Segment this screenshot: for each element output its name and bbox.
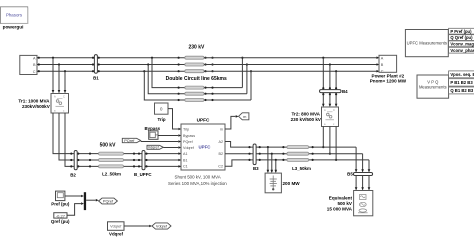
- wire Tr2 to 500kV phase A: [322, 127, 324, 149]
- svg-text:200 MW: 200 MW: [283, 181, 301, 186]
- line block L2cct phase B: [185, 92, 247, 95]
- label Tr1: [18, 98, 50, 109]
- svg-text:Trip: Trip: [157, 117, 165, 122]
- wire Bypass to UPFC: [158, 134, 181, 137]
- split wire circuit2 phase A: [151, 57, 185, 89]
- wire Tr2 to 500kV phase C: [335, 127, 337, 161]
- wire down to B5 phase B: [361, 154, 364, 173]
- svg-text:B1: B1: [93, 75, 99, 80]
- svg-text:L3_50km: L3_50km: [292, 166, 311, 171]
- wire B4 to Tr2 phase C: [335, 93, 338, 107]
- display P Pref (pu): [449, 28, 474, 34]
- svg-text:L2_50km: L2_50km: [102, 171, 121, 176]
- line block L2_50km phase A: [99, 152, 124, 155]
- wire A2 out: [225, 142, 356, 148]
- svg-text:C1: C1: [183, 165, 188, 169]
- junction dots at B3: [248, 146, 260, 161]
- wire C2 out: [225, 160, 369, 166]
- display Vpos seq B1 B2 B3: [449, 71, 474, 78]
- svg-text:Q Qref (pu): Q Qref (pu): [450, 35, 473, 40]
- label Equivalent: [327, 195, 353, 211]
- line block L3_50km phase C: [282, 158, 313, 161]
- wire rejoin phase A: [241, 57, 243, 88]
- source Vdqref: [108, 222, 125, 237]
- svg-text:Vconv_mag: Vconv_mag: [450, 41, 474, 46]
- label Tr2: [291, 111, 322, 121]
- bus B2: [70, 151, 77, 178]
- wire phase A to Power Plant 2: [204, 56, 379, 59]
- goto tag PQref: [99, 198, 118, 204]
- svg-text:Bypass: Bypass: [144, 126, 160, 131]
- svg-text:230 kV: 230 kV: [188, 45, 205, 51]
- wire drop to Tr1 phase A: [52, 57, 55, 94]
- wire PQref to UPFC: [141, 140, 182, 143]
- display Vconv_phase: [449, 47, 474, 53]
- svg-text:500 kV: 500 kV: [337, 201, 352, 206]
- wire m to goto tag: [225, 115, 239, 129]
- wire B4 to Tr2 phase A: [322, 93, 325, 107]
- svg-text:Pref (pu): Pref (pu): [51, 201, 70, 206]
- line block L3_50km phase A: [282, 146, 313, 149]
- wire Pref to mux: [65, 195, 84, 198]
- svg-text:m: m: [220, 127, 223, 131]
- svg-text:Vdqref: Vdqref: [110, 225, 122, 229]
- wire B2 to B_UPFC phase C: [70, 165, 181, 168]
- wire drop to Tr1 phase B: [58, 63, 61, 93]
- svg-text:UPFC: UPFC: [199, 144, 212, 149]
- svg-text:A1: A1: [183, 152, 188, 156]
- wire down to B5 phase C: [368, 160, 371, 173]
- svg-text:Tr2: 800 MVA: Tr2: 800 MVA: [291, 111, 320, 116]
- subsystem UPFC Measurements: [405, 30, 448, 57]
- svg-text:Vdqref: Vdqref: [183, 146, 195, 150]
- svg-text:Trip: Trip: [183, 127, 189, 131]
- wire drop to B4 phase C: [335, 70, 337, 89]
- svg-text:230kV/500kV: 230kV/500kV: [22, 104, 51, 109]
- svg-text:B1: B1: [183, 158, 188, 162]
- transformer Tr1: [51, 94, 69, 114]
- split wire circuit2 phase C: [143, 70, 185, 101]
- svg-text:B_UPFC: B_UPFC: [134, 172, 152, 177]
- wire load drop phase A: [267, 146, 270, 173]
- svg-text:Series 100 MVA,10% injection: Series 100 MVA,10% injection: [168, 181, 227, 186]
- line block L3_50km phase B: [282, 152, 313, 155]
- goto tag m: [239, 113, 249, 120]
- label Shunt Series: [168, 174, 227, 185]
- wire B5 to equivalent source phase B: [361, 176, 364, 191]
- wire Tr2 to 500kV phase B: [329, 127, 331, 155]
- svg-text:15 000 MVA: 15 000 MVA: [327, 207, 353, 212]
- bus B1: [93, 55, 99, 81]
- wire Vdqref to UPFC: [163, 146, 181, 149]
- svg-text:Vdqref: Vdqref: [148, 146, 160, 150]
- display Vconv_mag: [449, 41, 474, 47]
- line block L1 circuit1 phase A: [185, 56, 214, 59]
- svg-text:500 kV: 500 kV: [100, 142, 117, 148]
- svg-text:PQref: PQref: [103, 199, 114, 204]
- wire B2 to B_UPFC phase B: [70, 159, 181, 162]
- subsystem UPFC: [181, 118, 225, 170]
- wire drop to B4 phase B: [329, 63, 331, 89]
- svg-text:Double Circuit line 65kms: Double Circuit line 65kms: [166, 76, 227, 82]
- wire drop to Tr1 phase C: [64, 70, 67, 93]
- load 200 MW: [265, 173, 300, 193]
- wire Vdqref to goto: [124, 225, 152, 228]
- line block L2_50km phase B: [99, 159, 124, 162]
- wire phase B source1 to line block: [37, 63, 185, 65]
- bus B5: [347, 172, 372, 177]
- svg-text:UPFC Measurements: UPFC Measurements: [407, 41, 447, 46]
- constant Qref (pu): [51, 213, 70, 224]
- svg-text:C2: C2: [218, 165, 223, 169]
- svg-text:Phasors: Phasors: [6, 13, 23, 18]
- wire Trip to UPFC: [168, 109, 181, 131]
- breaker Bypass: [144, 126, 160, 139]
- goto tag Vdqref: [152, 223, 171, 229]
- svg-text:Q B1 B2 B3 (M: Q B1 B2 B3 (M: [450, 88, 474, 93]
- svg-text:Vpos. seq. B1 B2: Vpos. seq. B1 B2: [450, 72, 474, 77]
- wire Tr1 to B2 phase A: [53, 113, 71, 154]
- svg-text:B2: B2: [70, 172, 76, 177]
- svg-text:A2: A2: [218, 140, 223, 144]
- constant Trip: [155, 103, 169, 122]
- svg-text:A: A: [54, 95, 56, 99]
- powergui block: [1, 7, 28, 30]
- svg-text:Shunt 500 kV, 100 MVA: Shunt 500 kV, 100 MVA: [175, 174, 221, 179]
- transformer Tr2: [322, 107, 339, 127]
- svg-text:Measurements: Measurements: [419, 85, 447, 90]
- source Power Plant #2: [370, 55, 407, 83]
- wire down to B5 phase A: [355, 147, 358, 172]
- wire phase C source1 to line block: [37, 70, 185, 72]
- bus B4: [320, 89, 349, 94]
- wire Qref to mux: [67, 202, 84, 215]
- svg-text:P B1 B2 B3 (M: P B1 B2 B3 (M: [450, 80, 474, 85]
- svg-text:Vdqref: Vdqref: [109, 232, 123, 237]
- svg-text:Tr1: 1000 MVA: Tr1: 1000 MVA: [18, 98, 50, 103]
- svg-text:Vconv_phase: Vconv_phase: [450, 48, 474, 53]
- svg-text:UPFC: UPFC: [197, 118, 210, 123]
- svg-text:powergui: powergui: [3, 25, 24, 30]
- mux: [84, 192, 86, 210]
- display Q Qref (pu): [449, 35, 474, 41]
- svg-text:C: C: [33, 70, 36, 74]
- source Power Plant #1: [20, 55, 37, 74]
- wire B2 out: [225, 153, 363, 155]
- subsystem VPQ Measurements: [417, 75, 449, 98]
- line block L1 circuit1 phase B: [185, 63, 214, 66]
- from tag PQref: [122, 138, 140, 143]
- svg-text:B4: B4: [342, 89, 348, 94]
- svg-text:B3: B3: [253, 166, 259, 171]
- display P B1 B2 B3: [449, 79, 474, 86]
- wire rejoin phase B: [246, 63, 248, 93]
- svg-text:C: C: [333, 108, 335, 112]
- svg-text:m: m: [243, 114, 246, 119]
- svg-text:B5: B5: [347, 172, 353, 177]
- split wire circuit2 phase B: [147, 63, 185, 94]
- svg-text:Equivalent: Equivalent: [329, 195, 353, 200]
- wire Tr1 to B2 phase B: [59, 113, 71, 160]
- svg-text:PQref: PQref: [183, 140, 194, 144]
- svg-text:Bypass: Bypass: [183, 134, 195, 138]
- wire phase A source1 to line block: [37, 57, 185, 59]
- wire mux to PQref goto: [86, 199, 99, 202]
- svg-text:-0.27: -0.27: [56, 213, 66, 218]
- svg-text:A: A: [324, 108, 326, 112]
- svg-text:230 kV/500 kV: 230 kV/500 kV: [291, 117, 322, 122]
- wire rejoin phase C: [250, 70, 252, 100]
- wire phase B to Power Plant 2: [204, 63, 379, 66]
- svg-text:C: C: [63, 95, 65, 99]
- line block L2cct phase C: [185, 99, 251, 102]
- line block L1 circuit1 phase C: [185, 70, 214, 73]
- line block L2cct phase A: [185, 86, 243, 89]
- wire phase C to Power Plant 2: [204, 70, 379, 73]
- bus B_UPFC: [134, 151, 152, 177]
- wire B2 to B_UPFC phase A: [70, 152, 181, 155]
- wire B5 to equivalent source phase A: [355, 176, 358, 191]
- svg-text:Pnom= 1200 MW: Pnom= 1200 MW: [370, 79, 407, 84]
- bus B3: [253, 144, 259, 171]
- from tag Vdqref: [147, 145, 163, 149]
- svg-text:C: C: [381, 69, 384, 73]
- display Q B1 B2 B3: [449, 87, 474, 94]
- wire drop to B4 phase A: [322, 57, 324, 90]
- wire B4 to Tr2 phase B: [329, 93, 332, 107]
- svg-text:P Pref (pu): P Pref (pu): [450, 29, 472, 34]
- wire B5 to equivalent source phase C: [368, 176, 371, 191]
- svg-text:PQref: PQref: [124, 138, 135, 143]
- svg-text:Vdqref: Vdqref: [156, 225, 168, 229]
- wire load drop phase C: [275, 159, 278, 173]
- svg-text:A: A: [381, 56, 384, 60]
- svg-text:Qref (pu): Qref (pu): [51, 219, 70, 224]
- wire load drop phase B: [271, 153, 274, 174]
- wire Tr1 to B2 phase C: [65, 113, 71, 166]
- line block L2_50km phase C: [99, 165, 124, 168]
- signal Pref (pu): [51, 191, 70, 206]
- source Equivalent 500kV: [354, 191, 373, 216]
- svg-text:B: B: [381, 63, 384, 67]
- svg-text:B2: B2: [218, 152, 223, 156]
